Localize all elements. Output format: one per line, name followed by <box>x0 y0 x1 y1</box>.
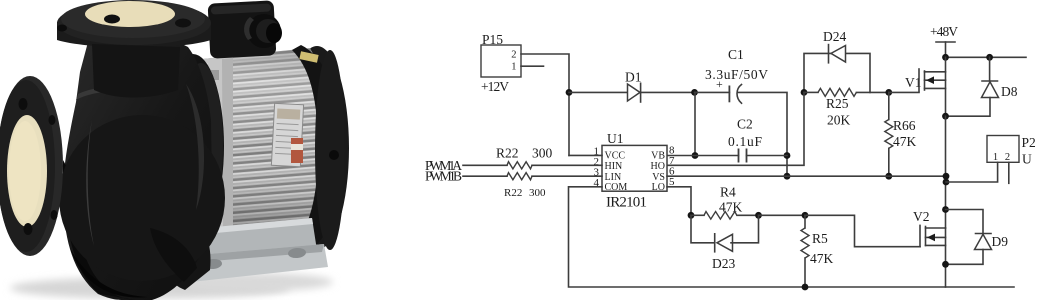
svg-text:D24: D24 <box>823 29 846 44</box>
svg-text:R5: R5 <box>812 231 828 246</box>
svg-text:R25: R25 <box>826 96 849 111</box>
resistor R66 47K <box>885 92 917 176</box>
svg-text:R22: R22 <box>496 146 519 161</box>
svg-text:0.1uF: 0.1uF <box>728 134 762 149</box>
svg-text:HIN: HIN <box>605 161 623 172</box>
svg-text:U: U <box>1022 152 1032 167</box>
node VB junction <box>691 89 698 96</box>
wire D1 to node VB <box>640 91 695 93</box>
wire to V1 gate <box>889 91 919 93</box>
node D9 bottom <box>942 261 949 268</box>
wire R4 node to R5 node <box>759 214 806 216</box>
junction VS row <box>784 173 791 180</box>
svg-text:47K: 47K <box>719 200 743 215</box>
motor finned body <box>193 48 318 240</box>
resistor R4 47K <box>691 185 759 220</box>
+48V rail <box>946 56 1027 58</box>
node R66 bottom on VS row <box>885 173 892 180</box>
mosfet V2 <box>913 209 946 287</box>
node R5 top <box>802 212 809 219</box>
svg-text:1: 1 <box>511 62 516 73</box>
svg-text:C2: C2 <box>737 117 753 132</box>
svg-text:300: 300 <box>532 146 553 161</box>
svg-text:2: 2 <box>1005 152 1010 163</box>
wire HO vertical from node down to HO row <box>667 92 804 165</box>
wire P2 pin1 <box>946 162 998 182</box>
wire pin8 VB row to C2 <box>667 155 739 157</box>
rear black rim overlay <box>290 45 343 254</box>
top flange <box>57 0 211 48</box>
rear end bell (black) <box>285 46 349 250</box>
svg-text:+12V: +12V <box>481 79 509 94</box>
resistor R22b (PWM1B line) <box>463 173 602 180</box>
wire to V2 gate with jog <box>805 215 920 246</box>
diode D8 <box>946 57 1018 116</box>
resistor R25 20K <box>804 88 889 127</box>
svg-text:20K: 20K <box>827 113 851 128</box>
svg-text:+48V: +48V <box>930 24 958 39</box>
svg-text:+: + <box>716 77 723 91</box>
svg-text:1: 1 <box>993 152 998 163</box>
wire P15 pin2 to +12V node <box>521 54 569 155</box>
IC U1 IR2101 <box>594 131 676 211</box>
wire P2 pin2 stub <box>1008 162 1010 183</box>
left flange disc <box>0 76 63 256</box>
wire VS row pin6 to phase node <box>667 175 946 177</box>
junction C2 right / VS vertical <box>784 152 791 159</box>
capacitor C2 0.1uF <box>728 117 762 163</box>
yellow sticker <box>299 51 318 63</box>
connector P2 <box>987 135 1036 167</box>
wire LO pin5 to R4 node <box>667 187 691 216</box>
svg-text:VCC: VCC <box>605 151 626 162</box>
node D8 top <box>986 54 993 61</box>
svg-text:P2: P2 <box>1022 135 1036 150</box>
svg-text:LO: LO <box>652 182 665 193</box>
svg-text:COM: COM <box>605 182 628 193</box>
power +48V <box>930 24 958 57</box>
wire C2 to VS vertical <box>747 155 788 157</box>
diode D24 branch <box>804 29 870 92</box>
resistor R5 47K <box>801 215 834 287</box>
svg-text:V2: V2 <box>913 209 930 224</box>
svg-text:3.3uF/50V: 3.3uF/50V <box>705 67 768 82</box>
diode D23 branch <box>691 215 759 271</box>
wire COM pin4 to ground rail <box>569 187 1015 287</box>
neck shading <box>92 44 180 98</box>
wire C1 to corner, down to C2 right node <box>738 92 787 176</box>
svg-text:300: 300 <box>529 187 546 199</box>
node phase (V1 source) <box>942 113 949 120</box>
node V1 drain <box>942 54 949 61</box>
pump adapter ring (dark, between volute and motor) <box>162 54 224 238</box>
motor foot <box>182 218 328 283</box>
wire VCC pin1 <box>569 154 602 156</box>
svg-text:D8: D8 <box>1001 84 1018 99</box>
svg-text:HO: HO <box>651 161 665 172</box>
diode D9 branch <box>946 210 1009 265</box>
wire +12V rail to D1 <box>569 91 628 93</box>
front face plate <box>193 56 233 240</box>
node VS row end <box>943 173 950 180</box>
junction box <box>208 0 277 58</box>
capacitor C1 3.3uF/50V <box>705 47 768 103</box>
nameplate <box>271 103 303 166</box>
small colorful sticker <box>291 138 303 163</box>
svg-text:R22: R22 <box>504 187 522 199</box>
wire node VB to C1 <box>695 91 730 93</box>
svg-text:D9: D9 <box>992 234 1009 249</box>
node VB at C2 row <box>692 152 699 159</box>
wire VB vertical <box>694 92 696 155</box>
svg-text:IR2101: IR2101 <box>606 195 647 211</box>
svg-text:PWM1B: PWM1B <box>425 169 462 184</box>
svg-text:47K: 47K <box>893 134 917 149</box>
svg-text:C1: C1 <box>728 47 744 62</box>
wire P15 pin1 stub <box>521 65 544 67</box>
svg-text:D1: D1 <box>625 70 642 85</box>
node D9 top <box>942 206 949 213</box>
svg-text:R4: R4 <box>720 185 736 200</box>
mosfet V1 <box>905 57 946 116</box>
connector P15 <box>481 32 521 77</box>
node LO/R4/D23 <box>688 212 695 219</box>
resistor R22a (PWM1A line) <box>463 162 602 169</box>
phase vertical wire <box>945 116 947 228</box>
svg-text:2: 2 <box>511 50 516 61</box>
svg-text:47K: 47K <box>810 251 834 266</box>
svg-text:VB: VB <box>651 151 665 162</box>
node R5 bottom on ground rail <box>802 284 809 291</box>
node R4/D23 right <box>755 212 762 219</box>
svg-text:R66: R66 <box>893 118 916 133</box>
node R25/R66/V1 gate <box>885 89 892 96</box>
svg-text:D23: D23 <box>712 256 735 271</box>
svg-text:P15: P15 <box>482 32 503 47</box>
svg-text:U1: U1 <box>607 131 624 146</box>
volute / pump casing <box>63 42 212 300</box>
node HO/R25 junction <box>801 89 808 96</box>
node +12V junction <box>566 89 573 96</box>
node P2 pin1 row <box>943 179 950 186</box>
diode D1 <box>625 70 642 103</box>
